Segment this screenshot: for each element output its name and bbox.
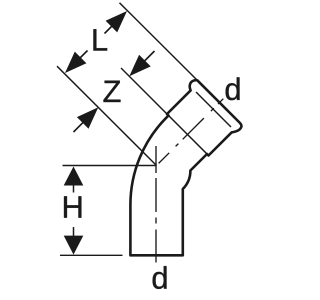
dimension Z upper arrow: [129, 55, 150, 76]
H bottom extension line: [60, 254, 123, 256]
label d (pipe end diameter): [153, 266, 167, 289]
dimension H upper arrow: [64, 167, 84, 186]
dimension H lower arrow: [64, 236, 84, 255]
label d (socket diameter): [226, 77, 240, 100]
dimension L upper arrow: [106, 11, 127, 32]
label H: [64, 196, 81, 217]
centerline inclined: [159, 153, 170, 164]
dimension L lower arrow: [65, 52, 86, 73]
centerline vertical: [155, 146, 157, 173]
H top extension line: [63, 165, 157, 167]
extension line / socket stop: [121, 68, 208, 155]
label L: [93, 29, 107, 50]
dimension Z lower arrow: [77, 107, 98, 128]
elbow body outline: [130, 80, 241, 255]
extension line through centre: [57, 66, 157, 165]
socket mouth inner edge: [196, 92, 231, 127]
label Z: [104, 81, 121, 102]
extension line A (socket end face): [120, 3, 197, 80]
